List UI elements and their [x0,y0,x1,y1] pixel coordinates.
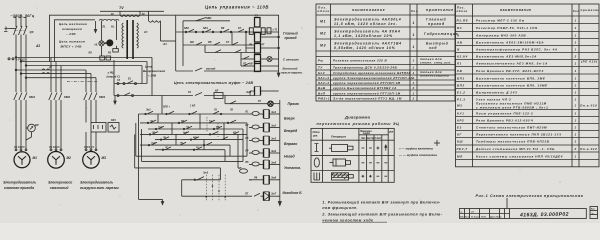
row vynosnoy [241,59,255,66]
bus M3 phase a [15,69,86,71]
lighting circuit caption [59,22,87,49]
transformer TV windings [122,23,138,48]
title block right cell [590,207,598,219]
control rail contacts [176,29,279,33]
right bus upper [278,36,280,49]
terminal taps row [8,58,14,60]
resistor R1 [113,46,119,52]
caption motor M3 [80,181,119,191]
parts table 2 frame [456,4,600,167]
rectifier caption [143,65,165,78]
circuit breaker QF1 phase L3 [24,17,28,66]
mesh bottom wire [139,199,164,204]
mesh contact labels [149,120,236,149]
transformer TV primary [100,11,164,16]
labels mesh top [146,105,234,112]
terminal blocks [100,46,111,60]
selector linkage dashed [206,175,225,202]
labels L7 HB [242,63,253,66]
cyclogram symbol row3 [314,173,320,181]
right cell text [591,209,596,215]
note underline [322,221,387,223]
parts table 2 text [456,6,600,159]
mesh row a [140,120,247,124]
indicator lamp fault [261,57,279,62]
arrow feed [94,21,96,33]
wire to row 7 [182,180,249,196]
coil KM1 [249,18,271,35]
mesh top row [139,111,250,115]
notes [321,201,442,223]
motor M3 [83,152,100,169]
bus L3 [26,65,142,67]
motor M2 terminals [50,149,62,151]
parts table 1 text [318,6,459,51]
rectifier row 1 [114,81,147,85]
relay row 3 Zm3 [249,138,264,142]
title block frame [460,209,587,219]
workpiece row2 [330,159,351,166]
motor M3 terminals [85,149,97,151]
relay row 1 Zm1 [249,112,264,116]
wire drops M1 [15,57,27,92]
tachogenerator BR on M1 [26,124,35,140]
parts table 1 frame [316,4,455,101]
rectifier arrow [114,96,116,105]
bus M3 phase b [20,73,91,75]
motor M1 terminals [15,149,27,151]
contactor KM2 contacts [49,93,62,150]
workpiece row1 [329,145,353,152]
contactor KM3 contacts [84,93,97,123]
cyclogram legend [398,147,437,158]
mesh feeder [162,96,225,115]
control box frame [176,15,279,71]
motor M2 [48,152,65,169]
wires M3 below thermal [86,132,96,149]
labels row 1 [117,78,132,83]
workpiece row3 [332,173,354,180]
bus L2 [21,61,147,63]
transformer TV secondary [149,11,176,41]
cyclogram headers [312,131,394,140]
marks row2 [362,162,388,164]
relay row 2 Zm2 [249,125,264,129]
contactor KM1 contacts [14,93,27,150]
mesh right verticals [225,123,247,168]
motor M1 [14,152,30,168]
caption motor M2 [48,181,73,191]
right bus with arrow [277,32,280,77]
cyclogram title [317,115,400,127]
clutch rail [114,93,255,99]
mesh interlink stubs [158,114,224,150]
label vynosnoy [281,67,303,75]
bus L1 [16,57,152,59]
caption motor M1 [3,181,36,191]
label RSh [107,71,120,79]
labels row 2 [190,41,230,44]
wire drops M2 [51,58,61,93]
selector dots [206,185,227,198]
mechanical link dashes [67,81,98,83]
marks row3 [362,175,388,178]
marks row1 [362,145,387,151]
coil KT [246,44,279,54]
lamp HL1 [104,40,113,46]
clutch indicator [268,101,280,106]
relay bus arrow [278,100,281,206]
control row 2 [183,32,255,45]
ground PE [4,27,16,32]
mesh row e [140,142,230,146]
rectifier feed line [176,68,279,71]
clutch selector Zm3 [182,168,221,181]
labels clutch rail [188,90,251,95]
cyclogram table frame [311,128,394,182]
mesh row f [155,147,225,151]
wire drops to rectifier [114,58,152,96]
relay row 6 Zm6 [240,169,264,180]
row s otkazom [241,53,255,60]
lamp EL1 [99,41,104,46]
wire drops M3 [86,70,96,92]
legend plus glyph [434,140,440,146]
mesh wrap wires [135,123,247,168]
circuit breaker QF1 phase L2 [19,17,23,62]
clutch lamp row [225,101,268,104]
thermal relay KK3 box [91,123,119,133]
mesh left bus [138,114,140,199]
control row 3 [205,32,255,53]
label glavny privod [283,32,298,41]
mesh linkage dashes [207,117,218,137]
coil KM2 [255,33,279,43]
labels control rail [184,27,242,30]
coil L1 [255,55,261,64]
caption tick [506,198,508,209]
bus M3 phase c [25,77,96,79]
lamp circuit legs [99,19,119,41]
relay row 7 Zm7 [249,193,264,196]
lighting box inner [55,20,96,62]
mesh row d [155,137,243,141]
breaker link dashes [14,30,25,32]
cyclogram symbol row1 [315,144,319,152]
cyclogram symbol row2 [314,158,319,167]
title block scribbles [460,212,502,219]
coil L7 [255,62,279,72]
circuit breaker QF1 phase L1 [14,17,18,58]
coil ZmV [250,87,279,96]
relay row 4 Zm4 [249,151,264,155]
mesh row b [148,126,243,130]
relay row 5 Zm5 [249,162,264,166]
transformer TV core [127,20,133,59]
mesh row c [140,132,247,135]
control row SB stop [183,18,230,67]
lighting box outer [50,15,176,62]
